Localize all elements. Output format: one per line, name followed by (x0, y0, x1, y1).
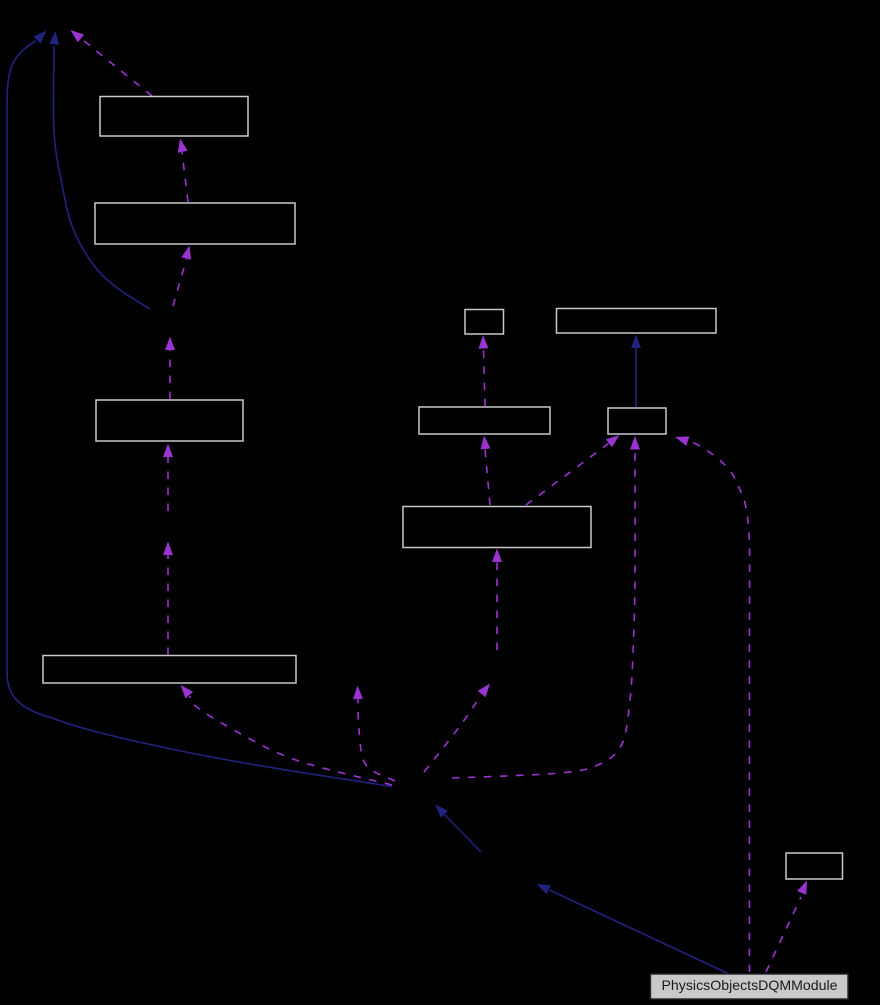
wire usage box7 to box5 (dashed) (479, 335, 489, 406)
wire usage hubB to box8 (dashed) (452, 436, 640, 778)
svg-text:PhysicsObjectsDQMModule: PhysicsObjectsDQMModule (662, 977, 838, 993)
node class box (label hidden) 5 (465, 310, 504, 335)
node class box (label hidden) 6 (557, 309, 717, 334)
wire usage PhysicsObjectsDQMModule to box10 (dashed) (766, 881, 807, 973)
wire usage hubB to nodeC (dashed) (353, 686, 395, 782)
wire usage box3 to nodeM (dashed) (165, 337, 175, 400)
wire inheritance box8 to box6 (blue) (631, 335, 641, 408)
wire usage nodeM to box2 (dashed) (173, 246, 191, 307)
node class box (label hidden) 9 (403, 507, 591, 548)
node class box (label hidden) 1 (100, 97, 248, 137)
node class box (label hidden) 4 (43, 656, 296, 684)
node PhysicsObjectsDQMModule (current class, highlighted) (651, 974, 849, 999)
node class box (label hidden) 8 (608, 408, 666, 434)
wire usage box9 to box8 (dashed) (526, 435, 620, 505)
wire usage hubB to nodeD (dashed) (424, 684, 490, 773)
wire usage box9 to box7 (dashed) (481, 436, 491, 506)
node class box (label hidden) 2 (95, 203, 295, 244)
wire usage nodeD to box9 (dashed) (492, 549, 502, 651)
wire inheritance nodeA to hubB (blue) (435, 805, 481, 853)
wire inheritance nodeM to topT (blue) (49, 31, 150, 309)
wire usage box2 to box1 (dashed) (178, 139, 188, 203)
wire usage PhysicsObjectsDQMModule to box8 (dashed) (675, 436, 750, 972)
wire usage box4 to nodeN (dashed) (163, 542, 173, 656)
node class box (label hidden) 3 (96, 400, 243, 441)
wire inheritance PhysicsObjectsDQMModule to nodeA (blue) (537, 884, 729, 974)
node class box (label hidden) 7 (419, 407, 550, 434)
node class box (label hidden) 10 (786, 853, 843, 879)
wire usage nodeN to box3 (dashed) (163, 444, 173, 512)
wire usage hubB to box4 (dashed) (181, 685, 393, 785)
wire usage box1 to topT (dashed) (71, 30, 153, 96)
wire inheritance hubB to topT (blue) (7, 31, 392, 787)
